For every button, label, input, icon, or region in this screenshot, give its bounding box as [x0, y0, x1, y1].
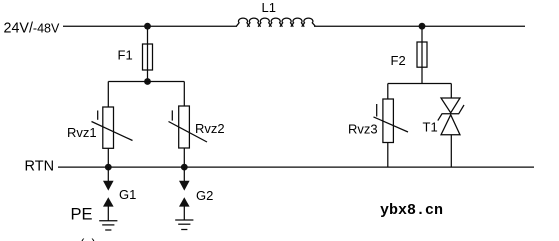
svg-text:Rvz2: Rvz2 [195, 121, 225, 136]
node junction dot top of F2 [419, 23, 426, 30]
svg-text:T1: T1 [423, 120, 438, 135]
svg-text:24V/-48V: 24V/-48V [4, 20, 60, 36]
wire Rvz1 bottom lead [107, 148, 109, 167]
wire Rvz3 top lead [387, 84, 389, 100]
varistor Rvz1 [92, 107, 133, 148]
varistor Rvz2 [169, 106, 208, 148]
wire top bus right segment [314, 25, 525, 27]
svg-text:(a): (a) [80, 236, 96, 241]
wire T1 bottom lead [450, 135, 452, 167]
fuse F2 [417, 42, 427, 67]
TVS diode T1 [438, 98, 464, 135]
node junction dot RTN G1 [105, 164, 112, 171]
wire top bus left segment [63, 25, 237, 27]
wire left branch horizontal [108, 81, 184, 83]
wire F1 column [147, 26, 149, 81]
fuse F1 [143, 44, 153, 70]
wire Rvz3 bottom lead [387, 143, 389, 168]
varistor Rvz3 [374, 99, 409, 143]
svg-text:RTN: RTN [25, 158, 55, 174]
svg-text:ybx8.cn: ybx8.cn [380, 202, 443, 219]
gas discharge tube G1 [103, 167, 114, 221]
ground under G2 [175, 220, 193, 230]
svg-text:G2: G2 [196, 188, 213, 203]
svg-text:.: . [324, 236, 328, 241]
wire Rvz2 top lead [183, 82, 185, 107]
ground PE under G1 [99, 221, 117, 230]
wire Rvz2 bottom lead [183, 148, 185, 167]
wire RTN bus [58, 166, 534, 168]
node junction dot bottom of F1 [144, 78, 151, 85]
wire T1 top lead [450, 84, 452, 99]
svg-text:G1: G1 [119, 187, 136, 202]
svg-text:F1: F1 [118, 48, 133, 63]
svg-text:PE: PE [71, 206, 93, 224]
svg-text:Rvz1: Rvz1 [67, 125, 97, 140]
wire F2 column [421, 26, 423, 83]
wire right branch horizontal [388, 83, 452, 85]
node junction dot top of F1 [144, 23, 151, 30]
inductor L1 [236, 18, 315, 27]
svg-text:L1: L1 [262, 0, 276, 15]
wire Rvz1 top lead [107, 82, 109, 108]
gas discharge tube G2 [179, 167, 190, 220]
svg-text:Rvz3: Rvz3 [348, 122, 378, 137]
node junction dot RTN G2 [181, 164, 188, 171]
svg-text:F2: F2 [391, 53, 406, 68]
